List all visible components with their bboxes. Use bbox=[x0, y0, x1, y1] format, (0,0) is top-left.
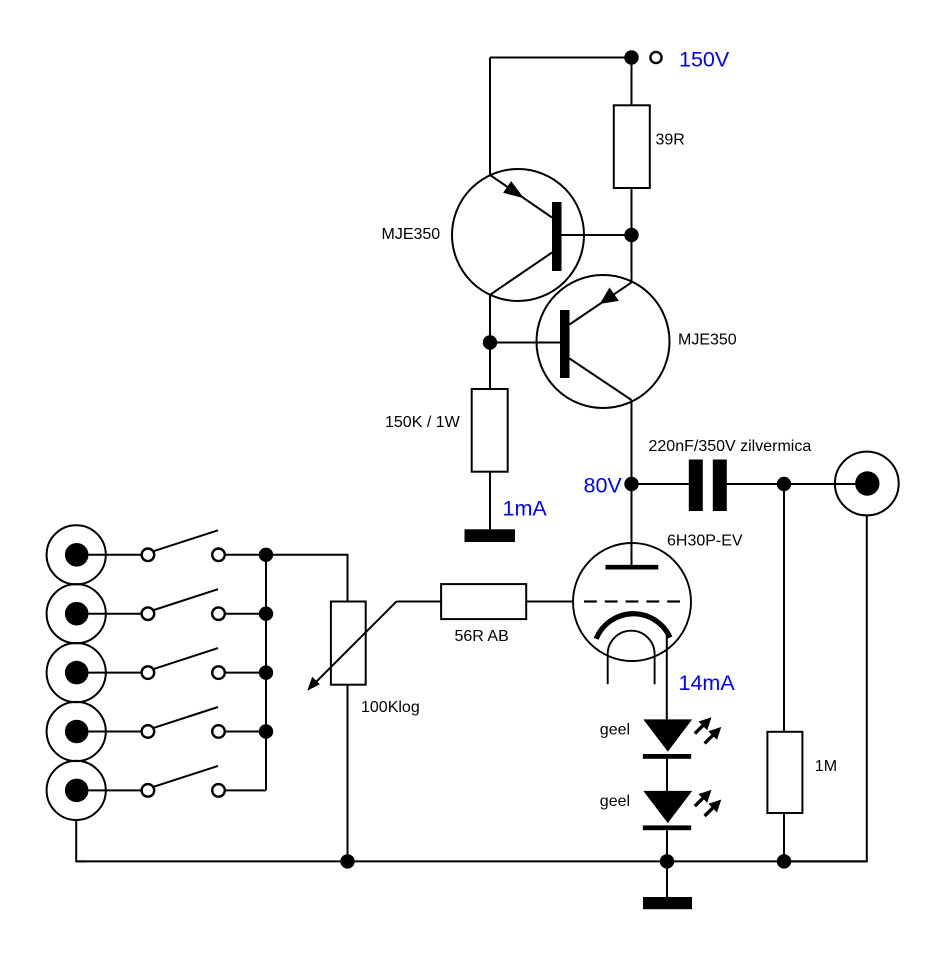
svg-text:1M: 1M bbox=[815, 758, 837, 775]
RCA input jack J5 bbox=[47, 761, 106, 820]
wire left drop from 150V rail to Q1 emitter bbox=[489, 58, 491, 177]
wire LED2 to ground bus bbox=[666, 830, 668, 861]
node Q1 base junction bbox=[625, 229, 637, 241]
svg-text:80V: 80V bbox=[584, 474, 623, 498]
wire grid lead bbox=[526, 601, 573, 603]
wire base node down to Q2 emitter bbox=[631, 235, 633, 282]
wire 80V node to capacitor bbox=[632, 483, 689, 485]
wire 1M bottom to ground bus bbox=[783, 813, 785, 861]
transistor Q1 MJE350 bbox=[452, 169, 632, 301]
triode U1 6H30P-EV bbox=[573, 543, 691, 684]
RCA output connector bbox=[835, 452, 899, 516]
terminal 150V open circle bbox=[650, 52, 661, 63]
svg-text:220nF/350V zilvermica: 220nF/350V zilvermica bbox=[649, 438, 812, 455]
resistor R2 150K/1W bbox=[472, 389, 508, 472]
wire Q2 collector down to tube anode bbox=[631, 400, 633, 565]
wire cathode lead down to LED1 bbox=[666, 634, 668, 719]
node pot ground junction bbox=[341, 855, 353, 867]
switch S4 bbox=[89, 707, 273, 738]
ground main bbox=[643, 897, 692, 909]
wire RCA shield down to ground bus bbox=[784, 515, 867, 861]
wire 39R bottom to base node bbox=[631, 188, 633, 235]
node 1M ground junction bbox=[778, 855, 790, 867]
svg-text:39R: 39R bbox=[656, 132, 685, 149]
LED D1 geel bbox=[643, 717, 722, 759]
node Q2 base junction bbox=[484, 336, 496, 348]
svg-text:150V: 150V bbox=[679, 48, 730, 72]
LED D2 geel bbox=[643, 790, 722, 830]
svg-text:56R AB: 56R AB bbox=[455, 628, 509, 645]
wire 150K bottom to ground bbox=[489, 472, 491, 530]
node 80V bbox=[625, 478, 637, 490]
wire 150V rail horizontal bbox=[490, 57, 632, 59]
RCA input jack J3 bbox=[47, 643, 106, 702]
resistor R1 39R bbox=[614, 105, 650, 188]
node 150V junction bbox=[625, 51, 637, 63]
wire down to ground symbol bbox=[666, 861, 668, 897]
svg-text:MJE350: MJE350 bbox=[678, 332, 737, 349]
node LED ground junction bbox=[661, 855, 673, 867]
switch S5 bbox=[89, 766, 267, 797]
wire output node down to 1M bbox=[783, 484, 785, 732]
svg-text:geel: geel bbox=[600, 793, 630, 810]
wire Q2 base node to 150K top bbox=[489, 343, 491, 390]
switch S1 bbox=[89, 530, 273, 561]
wire bus to pot top bbox=[266, 555, 348, 602]
wire pot bottom to ground bus bbox=[347, 685, 349, 862]
svg-text:1mA: 1mA bbox=[503, 497, 548, 521]
resistor R3 1M bbox=[767, 732, 802, 813]
resistor R4 56R AB bbox=[441, 584, 526, 619]
wire capacitor to output bbox=[727, 483, 866, 485]
svg-text:MJE350: MJE350 bbox=[382, 226, 441, 243]
wire selector bus vertical bbox=[265, 555, 267, 791]
wire LED1 to LED2 bbox=[666, 759, 668, 791]
ground under 150K bbox=[465, 529, 516, 542]
wire pot wiper to 56R bbox=[397, 601, 442, 603]
wire J5 to ground bus bbox=[76, 820, 86, 862]
switch S3 bbox=[89, 648, 273, 679]
ground bus wire bbox=[76, 860, 867, 862]
wire Q1 collector drop bbox=[489, 295, 491, 343]
svg-text:geel: geel bbox=[600, 722, 630, 739]
capacitor C1 220nF/350V bbox=[689, 460, 727, 512]
RCA input jack J4 bbox=[47, 702, 106, 761]
RCA input jack J2 bbox=[47, 584, 106, 643]
transistor Q2 MJE350 bbox=[490, 275, 670, 408]
svg-text:14mA: 14mA bbox=[679, 671, 736, 695]
switch S2 bbox=[89, 589, 273, 620]
svg-text:6H30P-EV: 6H30P-EV bbox=[667, 533, 743, 550]
node output junction bbox=[778, 478, 790, 490]
RCA input jack J1 bbox=[47, 525, 106, 584]
svg-text:150K / 1W: 150K / 1W bbox=[385, 414, 461, 431]
svg-text:100Klog: 100Klog bbox=[361, 699, 420, 716]
potentiometer P1 100Klog bbox=[307, 602, 396, 691]
wire 150V junction to 39R top bbox=[631, 58, 633, 106]
